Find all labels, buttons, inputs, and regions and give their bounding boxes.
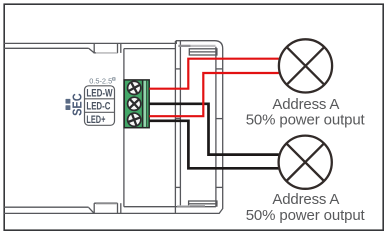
svg-text:50% power output: 50% power output — [246, 207, 366, 224]
svg-text:LED+: LED+ — [86, 114, 105, 126]
svg-text:Address A: Address A — [272, 191, 339, 208]
svg-text:0.5-2.5: 0.5-2.5 — [89, 77, 112, 86]
svg-text:LED-W: LED-W — [86, 87, 112, 99]
svg-text:Address A: Address A — [272, 96, 339, 113]
svg-text:50% power output: 50% power output — [246, 112, 366, 129]
svg-text:LED-C: LED-C — [86, 101, 110, 113]
svg-text:SEC: SEC — [69, 93, 84, 116]
